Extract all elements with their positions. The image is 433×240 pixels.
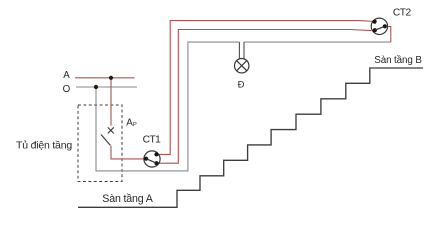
svg-text:Đ: Đ bbox=[238, 79, 245, 90]
svg-text:CT2: CT2 bbox=[393, 8, 412, 19]
svg-text:Sàn tầng B: Sàn tầng B bbox=[374, 55, 422, 66]
svg-text:Tủ điện tầng: Tủ điện tầng bbox=[16, 140, 72, 152]
svg-text:Sàn tầng A: Sàn tầng A bbox=[102, 193, 153, 205]
svg-text:P: P bbox=[133, 122, 137, 128]
svg-text:CT1: CT1 bbox=[143, 135, 162, 146]
svg-text:A: A bbox=[63, 70, 70, 81]
svg-text:O: O bbox=[63, 84, 71, 95]
